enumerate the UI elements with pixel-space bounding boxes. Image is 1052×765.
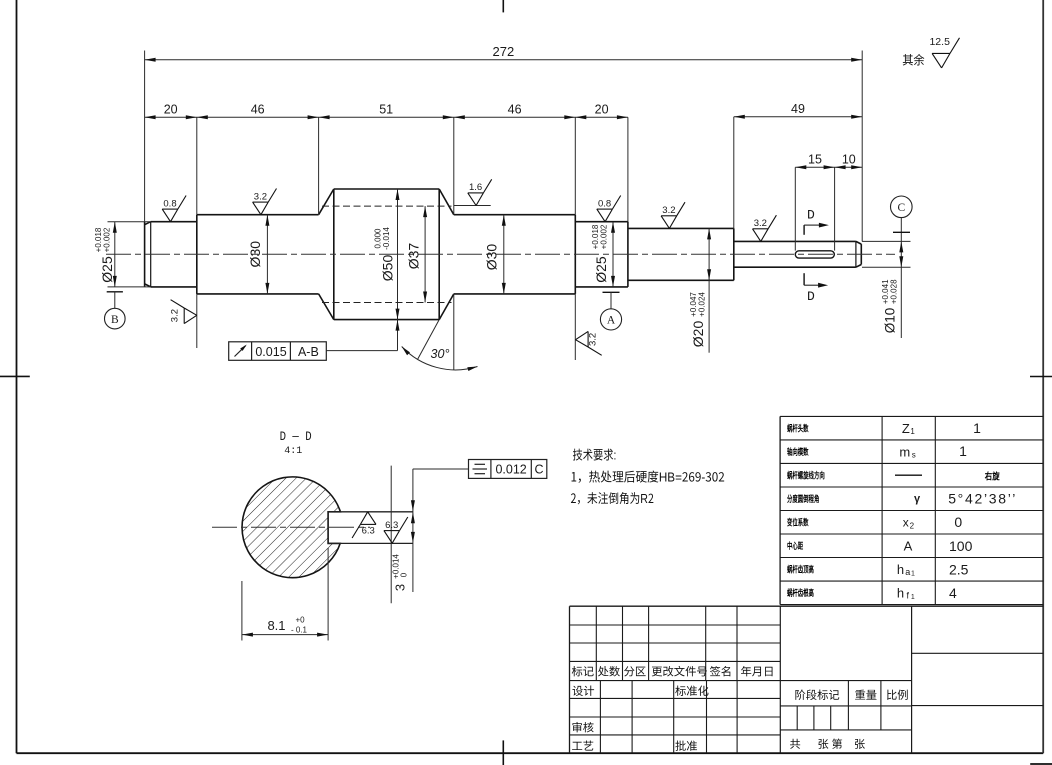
svg-text:Ø25: Ø25: [593, 256, 609, 283]
svg-text:20: 20: [595, 103, 609, 117]
extension lines keyway: [794, 167, 796, 250]
dimension 49: [734, 116, 862, 118]
svg-text:阶段标记: 阶段标记: [795, 687, 840, 703]
dimension dia25 right with tolerance: [612, 222, 614, 287]
extension line keyway side: [390, 466, 392, 604]
svg-text:0: 0: [954, 514, 962, 530]
svg-text:标准化: 标准化: [675, 683, 709, 699]
svg-text:100: 100: [949, 538, 973, 554]
svg-text:8.1: 8.1: [267, 618, 285, 633]
worm outer edges dia50: [334, 188, 439, 190]
extension line at step4: [733, 117, 735, 229]
extension line worm start: [318, 117, 320, 214]
svg-text:Ø37: Ø37: [406, 243, 422, 270]
sheet bottom border: [17, 752, 1044, 754]
svg-text:技术要求:: 技术要求:: [573, 445, 617, 464]
right end chamfer: [856, 241, 861, 244]
svg-text:3.2: 3.2: [254, 191, 267, 202]
svg-text:蜗杆头数: 蜗杆头数: [787, 422, 809, 435]
svg-text:1.6: 1.6: [469, 182, 482, 193]
svg-text:右旋: 右旋: [984, 469, 1000, 482]
roughness 1.6 on worm flank: [468, 193, 476, 206]
svg-text:30°: 30°: [431, 347, 450, 361]
svg-text:批准: 批准: [675, 738, 698, 754]
svg-text:4:1: 4:1: [284, 446, 302, 457]
svg-text:+0.018: +0.018: [94, 227, 103, 252]
worm right tapers: [439, 189, 454, 215]
roughness 6.3 on slot bottom: [384, 531, 392, 544]
svg-text:51: 51: [379, 103, 393, 117]
svg-text:D: D: [807, 207, 815, 222]
dimension dia37: [424, 206, 426, 302]
svg-text:46: 46: [251, 103, 265, 117]
svg-text:49: 49: [791, 102, 805, 116]
svg-text:D — D: D — D: [280, 429, 312, 444]
svg-text:0.012: 0.012: [495, 462, 526, 476]
svg-text:m: m: [899, 444, 910, 459]
roughness 3.2 on step face right: [576, 331, 589, 339]
datum A: [603, 291, 620, 293]
dimension dia10 with tolerance: [900, 232, 902, 338]
svg-text:分度圆倒程角: 分度圆倒程角: [787, 492, 819, 505]
angle arc 30 deg: [402, 347, 478, 370]
section center line: [212, 526, 370, 528]
svg-text:+0: +0: [296, 616, 306, 625]
svg-text:+0.002: +0.002: [599, 224, 608, 249]
dimension dia25 left with tolerance: [114, 222, 116, 287]
svg-text:15: 15: [808, 153, 822, 167]
svg-text:1: 1: [910, 427, 915, 436]
left chamfer edges: [145, 222, 151, 225]
dimension 20: [145, 116, 628, 118]
symbol dash for thread direction: [895, 474, 922, 476]
leader from 0.012 frame: [413, 468, 469, 470]
centering mark right: [1030, 376, 1052, 378]
dimension 272: [145, 59, 863, 61]
svg-text:审核: 审核: [572, 720, 595, 736]
svg-text:2: 2: [910, 521, 915, 530]
svg-text:Z: Z: [902, 421, 910, 436]
svg-text:h: h: [897, 562, 904, 577]
keyway slot on shaft: [795, 251, 834, 258]
svg-text:3.2: 3.2: [662, 205, 675, 216]
roughness 6.3 inverted on slot top: [368, 512, 376, 525]
step face dia30 to dia25: [574, 215, 576, 294]
svg-text:272: 272: [493, 44, 515, 59]
shaft center line: [106, 253, 895, 255]
extension line right end: [861, 51, 863, 242]
step face dia25 to dia30: [196, 215, 198, 294]
svg-text:10: 10: [842, 153, 856, 167]
svg-text:标记: 标记: [572, 663, 595, 679]
svg-text:+0.028: +0.028: [889, 279, 898, 304]
sheet left border: [16, 0, 18, 753]
title block grid: [570, 605, 1044, 607]
dimension 10: [851, 165, 862, 169]
roughness 3.2 on dia20: [661, 216, 669, 229]
svg-text:D: D: [807, 289, 815, 304]
extension line left end: [144, 51, 146, 222]
svg-text:签名: 签名: [710, 663, 733, 679]
svg-text:Ø50: Ø50: [379, 255, 395, 282]
svg-text:0: 0: [399, 572, 408, 577]
dimension 8.1 keyway depth: [241, 581, 243, 641]
dimension dia30 second: [503, 215, 505, 294]
svg-text:1: 1: [973, 420, 981, 436]
datum C: [891, 196, 913, 218]
svg-text:46: 46: [508, 103, 522, 117]
svg-text:a: a: [905, 567, 910, 577]
sheet right border: [1042, 0, 1044, 753]
corner mark bottom-right: [1030, 763, 1052, 765]
svg-text:中心距: 中心距: [787, 539, 804, 552]
section circle with keyway and hatch: [242, 477, 340, 578]
svg-text:0.8: 0.8: [598, 198, 611, 209]
svg-text:h: h: [897, 585, 904, 600]
svg-text:共: 共: [790, 736, 801, 752]
svg-text:C: C: [897, 202, 905, 214]
svg-text:更改文件号: 更改文件号: [651, 663, 708, 679]
svg-text:3: 3: [393, 584, 408, 591]
svg-text:1: 1: [911, 570, 915, 577]
leader from frame to worm: [326, 350, 397, 352]
svg-text:Ø30: Ø30: [484, 244, 500, 271]
dimension dia50 with tolerance: [397, 189, 399, 320]
svg-text:3.2: 3.2: [754, 218, 767, 229]
svg-text:轴向模数: 轴向模数: [787, 445, 809, 458]
segment5 dia25 edges: [575, 221, 628, 223]
svg-text:比例: 比例: [886, 687, 909, 703]
segment1 dia25 top and bottom edges: [151, 221, 197, 223]
centering mark left: [0, 375, 30, 377]
extension line at step3: [627, 117, 629, 221]
svg-text:2.5: 2.5: [949, 562, 969, 578]
segment2 dia30 edges: [197, 214, 319, 216]
segment4 dia30 edges: [454, 214, 576, 216]
svg-text:Ø30: Ø30: [247, 241, 263, 268]
segment7 dia10 edges: [734, 240, 856, 242]
svg-text:分区: 分区: [624, 663, 647, 679]
svg-text:3.2: 3.2: [588, 333, 599, 346]
svg-text:Ø10: Ø10: [883, 308, 898, 334]
svg-text:第: 第: [832, 736, 843, 752]
svg-text:处数: 处数: [598, 663, 621, 679]
svg-text:0.8: 0.8: [163, 198, 176, 209]
worm left tapers: [319, 189, 334, 215]
step face dia25 to dia20: [627, 222, 629, 287]
svg-text:张: 张: [854, 736, 865, 752]
dimension dia20 with tolerance: [708, 228, 710, 352]
worm parameter table: [780, 415, 1043, 417]
dimension 3 keyway width: [412, 469, 414, 592]
roughness 3.2 on dia30 left: [253, 202, 261, 215]
extension lines dia10: [862, 240, 911, 242]
dimension 15: [795, 166, 862, 168]
svg-text:3.2: 3.2: [169, 309, 180, 322]
svg-text:蜗杆齿顶高: 蜗杆齿顶高: [787, 563, 814, 576]
tolerance frame 0.015 A-B: [229, 342, 327, 361]
svg-text:其余: 其余: [902, 51, 925, 69]
svg-text:6.3: 6.3: [385, 520, 398, 531]
svg-text:4: 4: [949, 585, 957, 601]
svg-text:1: 1: [959, 443, 967, 459]
svg-text:1: 1: [911, 594, 915, 601]
svg-text:1，热处理后硬度HB=269-302: 1，热处理后硬度HB=269-302: [571, 467, 725, 486]
svg-text:C: C: [534, 462, 543, 476]
svg-text:工艺: 工艺: [572, 738, 595, 754]
flank surface line for 1.6: [454, 205, 491, 207]
svg-text:6.3: 6.3: [362, 525, 375, 536]
svg-text:- 0.1: - 0.1: [291, 626, 308, 635]
svg-text:变位系数: 变位系数: [787, 516, 809, 529]
svg-text:A: A: [904, 539, 913, 554]
svg-text:A-B: A-B: [298, 345, 319, 359]
svg-text:A: A: [607, 315, 616, 327]
centering mark top: [502, 0, 504, 12]
svg-text:s: s: [912, 451, 916, 460]
roughness 0.8 on dia25 left: [162, 209, 170, 222]
roughness 3.2 on dia10: [753, 229, 761, 242]
svg-text:x: x: [903, 515, 909, 529]
svg-text:20: 20: [164, 103, 178, 117]
keyway slot lines in section: [328, 511, 413, 513]
extension line at step2: [574, 117, 576, 214]
segment6 dia20 edges: [628, 227, 734, 229]
svg-text:设计: 设计: [572, 683, 595, 699]
svg-text:年月日: 年月日: [741, 663, 775, 679]
tolerance frame 0.012 C: [469, 460, 547, 479]
section marker D lower: [803, 273, 805, 285]
svg-text:Ø25: Ø25: [99, 256, 115, 283]
svg-text:重量: 重量: [855, 687, 878, 703]
svg-text:B: B: [111, 314, 119, 326]
section marker D upper: [803, 225, 805, 235]
svg-text:蜗杆螺旋线方向: 蜗杆螺旋线方向: [787, 469, 825, 482]
roughness 0.8 on dia25 right: [597, 209, 605, 222]
worm root dia37 dashed lines: [322, 205, 452, 207]
centering mark bottom: [502, 740, 504, 765]
svg-text:-0.014: -0.014: [382, 227, 391, 250]
extension line worm end: [453, 117, 455, 214]
chamfer extension line for 30 deg: [418, 320, 440, 360]
extension line at step1: [196, 117, 198, 214]
svg-text:5°42’38’’: 5°42’38’’: [948, 491, 1017, 507]
extension lines dia25 left: [108, 221, 151, 223]
svg-text:Ø20: Ø20: [690, 321, 706, 348]
svg-text:+0.002: +0.002: [103, 227, 112, 252]
datum B: [107, 291, 123, 293]
svg-text:12.5: 12.5: [929, 36, 950, 48]
step face dia20 to dia10: [733, 228, 735, 280]
shaft left end face: [144, 222, 146, 287]
default roughness 12.5 top right: [932, 53, 942, 68]
dimension dia30 first: [266, 215, 268, 294]
roughness 3.2 on step face left: [184, 315, 197, 323]
worm end faces: [333, 189, 335, 320]
svg-text:张: 张: [818, 736, 829, 752]
svg-text:0.015: 0.015: [255, 345, 286, 359]
svg-text:+0.024: +0.024: [697, 292, 706, 317]
svg-text:γ: γ: [914, 493, 921, 505]
svg-text:蜗杆齿根高: 蜗杆齿根高: [787, 586, 814, 599]
svg-text:2，未注倒角为R2: 2，未注倒角为R2: [571, 489, 654, 508]
